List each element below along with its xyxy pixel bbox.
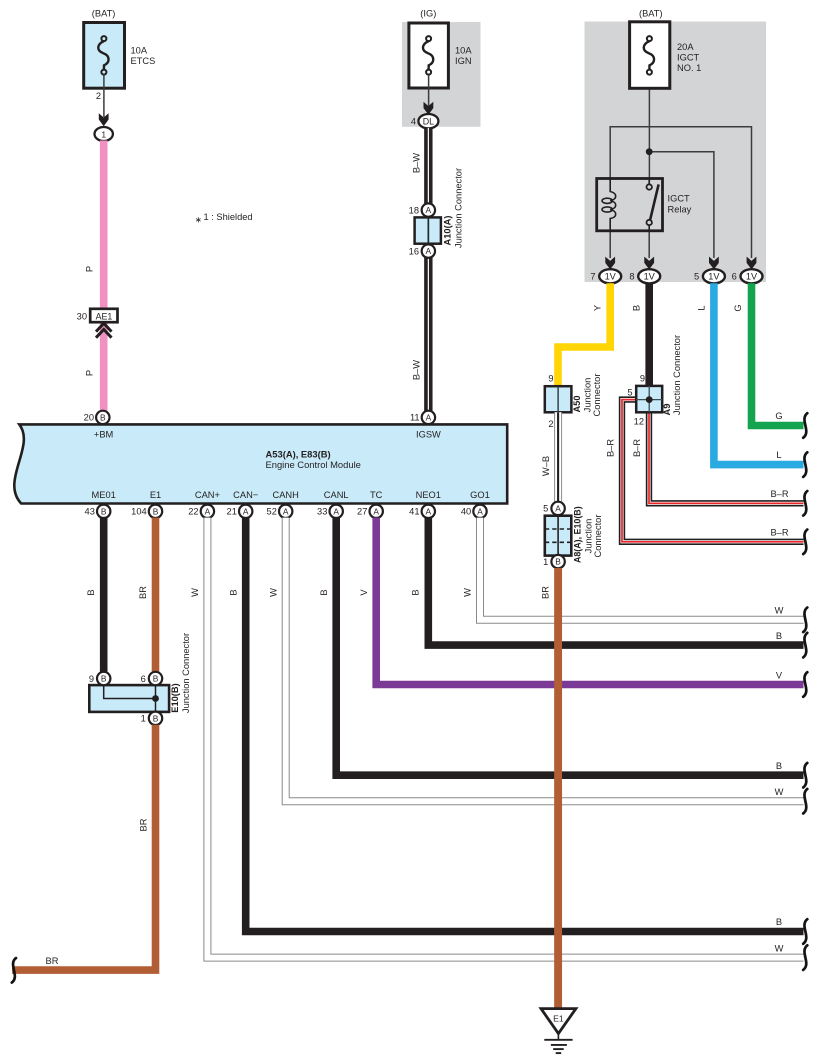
pin circle 27 A (TC): [370, 505, 383, 518]
svg-text:L: L: [696, 305, 706, 310]
svg-text:12: 12: [634, 417, 644, 427]
svg-text:∗: ∗: [195, 214, 202, 224]
svg-text:27: 27: [357, 507, 367, 517]
svg-text:W: W: [462, 588, 472, 597]
wire: BR ground wire from A8 pin1 to E1 ground: [554, 568, 562, 1009]
svg-text:P: P: [85, 266, 95, 272]
pin circle 1 B (A8 bottom): [551, 555, 564, 568]
junction connector A9 box: [636, 386, 662, 412]
svg-text:5: 5: [543, 504, 548, 514]
svg-text:A: A: [426, 246, 432, 256]
svg-text:+BM: +BM: [94, 430, 113, 440]
connector oval 4 DL: [418, 114, 438, 128]
shield chevron below AE1: [96, 323, 112, 331]
svg-text:5: 5: [627, 388, 632, 398]
fuse F1: 10A ETCS: [84, 23, 125, 89]
pin circle 33 A (CANL): [330, 505, 343, 518]
svg-text:41: 41: [409, 507, 419, 517]
svg-text:IGN: IGN: [455, 56, 472, 66]
svg-text:2: 2: [548, 419, 553, 429]
svg-text:Engine Control Module: Engine Control Module: [266, 459, 361, 470]
svg-text:V: V: [359, 589, 369, 596]
svg-text:BR: BR: [541, 586, 551, 599]
wire: BR from E10 pin1 to left edge: [12, 725, 156, 970]
svg-text:18: 18: [409, 205, 419, 215]
svg-text:6: 6: [732, 272, 737, 282]
wire: L blue pin5: [714, 283, 804, 464]
svg-text:B: B: [555, 557, 561, 567]
svg-text:B–W: B–W: [412, 153, 422, 173]
svg-text:E10(B): E10(B): [170, 683, 180, 712]
wire: horizontal link coil-to-pin6: [610, 127, 751, 258]
break symbol right (B NEO1): [803, 633, 807, 658]
wire: Y yellow pin7 to A50: [558, 283, 610, 388]
svg-text:9: 9: [548, 374, 553, 384]
svg-text:Connector: Connector: [593, 515, 603, 558]
svg-text:Junction Connector: Junction Connector: [181, 633, 191, 713]
wire: P pink from connector 1 to ECM +BM: [100, 141, 108, 413]
svg-text:20A: 20A: [677, 42, 694, 52]
arrow into 1V pin 7: [605, 257, 615, 270]
wire: B-W from junction A10(A) to ECM IGSW: [424, 258, 432, 413]
gray block (IG fuse area): [402, 22, 481, 127]
svg-text:4: 4: [411, 117, 416, 127]
svg-text:BR: BR: [138, 586, 148, 599]
svg-text:BR: BR: [46, 956, 59, 966]
svg-text:A: A: [333, 506, 339, 516]
break symbol right (B CANL): [803, 763, 807, 788]
pin circle 11 A (IGSW): [422, 411, 435, 424]
connector oval 1V pin 6: [741, 269, 763, 283]
svg-text:1: 1: [141, 714, 146, 724]
svg-text:B: B: [319, 589, 329, 595]
pin circle 104 B (E1): [149, 505, 162, 518]
svg-text:CAN−: CAN−: [233, 490, 258, 500]
svg-text:CANH: CANH: [273, 490, 299, 500]
pin circle 22 A (CAN+): [201, 505, 214, 518]
pin circle 6 B (E10): [149, 672, 162, 685]
pin circle 21 A (CAN-): [239, 505, 252, 518]
wire: B NEO1: [428, 518, 803, 646]
wire: W GO1: [480, 518, 804, 620]
pin circle 16 A (A10 bottom): [422, 244, 435, 257]
svg-text:A: A: [283, 506, 289, 516]
svg-text:30: 30: [77, 311, 87, 321]
wire: relay switch output to pin 8: [648, 231, 650, 258]
wire: relay coil output to pin 7: [609, 231, 611, 258]
svg-text:52: 52: [267, 507, 277, 517]
svg-text:B: B: [153, 506, 159, 516]
wire: branch dot-to-pin5: [649, 152, 714, 258]
break symbol right (G): [803, 413, 807, 438]
svg-text:B: B: [86, 589, 96, 595]
wire: IGCT fuse output vertical: [648, 75, 650, 182]
svg-text:20: 20: [84, 413, 94, 423]
svg-text:22: 22: [188, 507, 198, 517]
break symbol right (B-R no.2): [803, 491, 807, 516]
svg-text:CANL: CANL: [324, 490, 349, 500]
connector oval 1 (ETCS): [95, 127, 113, 141]
svg-text:10A: 10A: [455, 46, 472, 56]
wire: B CAN-: [246, 518, 804, 932]
svg-text:2: 2: [96, 91, 101, 101]
svg-text:E1: E1: [553, 1014, 564, 1024]
pin circle 43 B (ME01): [97, 505, 110, 518]
svg-text:CAN+: CAN+: [195, 490, 220, 500]
svg-text:G: G: [733, 304, 743, 311]
svg-text:Connector: Connector: [592, 374, 602, 417]
svg-text:A: A: [477, 506, 483, 516]
svg-text:B: B: [153, 674, 159, 684]
svg-text:A53(A), E83(B): A53(A), E83(B): [266, 448, 331, 459]
svg-text:Junction: Junction: [584, 519, 594, 554]
svg-text:B: B: [632, 305, 642, 311]
svg-text:(IG): (IG): [420, 9, 436, 19]
svg-text:DL: DL: [423, 117, 434, 127]
junction connector E10(B) box: [89, 685, 169, 712]
svg-text:1V: 1V: [644, 272, 656, 282]
svg-text:E1: E1: [150, 490, 161, 500]
svg-text:IGSW: IGSW: [416, 430, 441, 440]
wire: W CAN+: [207, 518, 803, 958]
svg-text:B: B: [776, 631, 782, 641]
node: dot inside A9: [646, 396, 653, 403]
svg-text:1V: 1V: [605, 272, 617, 282]
svg-text:40: 40: [461, 507, 471, 517]
svg-text:A: A: [426, 506, 432, 516]
svg-text:1 : Shielded: 1 : Shielded: [204, 212, 253, 222]
svg-text:A: A: [426, 412, 432, 422]
svg-text:A: A: [205, 506, 211, 516]
svg-text:NO. 1: NO. 1: [677, 63, 701, 73]
splice AE1 box: [90, 309, 117, 322]
pin circle 52 A (CANH): [279, 505, 292, 518]
svg-text:16: 16: [409, 246, 419, 256]
svg-text:AE1: AE1: [96, 311, 113, 321]
connector oval 1V pin 7: [599, 269, 621, 283]
node: dot inside E10(B): [152, 695, 159, 702]
svg-text:G: G: [775, 411, 782, 421]
svg-text:43: 43: [85, 507, 95, 517]
pin circle 9 B (E10): [97, 672, 110, 685]
wire: B-R no.1 from A9 left to right edge: [622, 400, 804, 542]
svg-text:7: 7: [590, 272, 595, 282]
arrow into connector DL (IGN): [424, 102, 434, 115]
svg-text:11: 11: [410, 413, 420, 423]
break symbol right (L): [803, 452, 807, 477]
svg-text:L: L: [776, 450, 781, 460]
wire: V TC: [376, 518, 803, 685]
junction connector A50 box: [545, 386, 572, 412]
svg-text:B: B: [101, 674, 107, 684]
svg-text:1: 1: [101, 129, 106, 139]
svg-text:B–R: B–R: [770, 489, 788, 499]
connector oval 1V pin 8: [638, 269, 660, 283]
wire: B-R no.2 from A9 bottom to right edge: [649, 411, 804, 503]
svg-text:W: W: [268, 588, 278, 597]
relay coil: [610, 179, 615, 231]
svg-text:5: 5: [694, 272, 699, 282]
svg-text:(BAT): (BAT): [92, 9, 116, 19]
junction connector A8(A) E10(B) box: [545, 516, 572, 556]
svg-text:GO1: GO1: [470, 490, 490, 500]
svg-text:A: A: [373, 506, 379, 516]
svg-text:10A: 10A: [131, 46, 148, 56]
svg-text:B–W: B–W: [412, 360, 422, 380]
break symbol right (V TC): [803, 672, 807, 697]
pin circle 40 A (GO1): [473, 505, 486, 518]
svg-text:IGCT: IGCT: [677, 53, 700, 63]
connector oval 1V pin 5: [703, 269, 725, 283]
arrow into 1V pin 5: [709, 257, 719, 270]
svg-text:A9: A9: [662, 404, 672, 416]
svg-text:ETCS: ETCS: [131, 56, 156, 66]
arrow into 1V pin 6: [747, 257, 757, 270]
svg-text:104: 104: [131, 507, 147, 517]
svg-text:Y: Y: [593, 305, 603, 311]
svg-text:33: 33: [317, 507, 327, 517]
node: junction dot under IGCT fuse: [646, 148, 653, 155]
svg-text:W–B: W–B: [541, 456, 551, 476]
break symbol left (BR): [12, 958, 16, 983]
wire: fuse IGN to arrow: [428, 75, 430, 106]
junction connector A10(A) box: [415, 217, 441, 243]
svg-text:A: A: [555, 503, 561, 513]
wire: fuse ETCS to arrow: [103, 75, 105, 117]
wire: BR from E1 down: [152, 518, 160, 672]
svg-text:9: 9: [640, 374, 645, 384]
break symbol right (W GO1): [803, 608, 807, 633]
svg-text:NEO1: NEO1: [416, 490, 441, 500]
pin circle 20 B (+BM): [96, 411, 109, 424]
pin circle 18 A (A10 top): [422, 203, 435, 216]
svg-text:(BAT): (BAT): [639, 9, 663, 19]
pin circle 5 A (A8 top): [551, 502, 564, 515]
relay switch: [648, 179, 650, 185]
svg-text:Junction: Junction: [583, 378, 593, 413]
wire: B-W from DL to junction A10(A): [424, 128, 432, 204]
svg-text:B: B: [101, 506, 107, 516]
wire: W-B from A50 to A8: [554, 412, 562, 502]
svg-text:A10(A): A10(A): [443, 216, 453, 246]
svg-text:TC: TC: [370, 490, 383, 500]
svg-text:V: V: [776, 670, 783, 680]
svg-text:A: A: [426, 205, 432, 215]
wire: B from ME01 down: [100, 518, 108, 672]
svg-text:1: 1: [543, 557, 548, 567]
svg-text:P: P: [85, 370, 95, 376]
svg-text:A8(A), E10(B): A8(A), E10(B): [573, 506, 583, 563]
relay K1 box: IGCT Relay: [597, 179, 663, 231]
svg-text:BR: BR: [139, 818, 149, 831]
svg-text:B–R: B–R: [632, 439, 642, 457]
svg-text:B–R: B–R: [770, 528, 788, 538]
svg-text:ME01: ME01: [92, 490, 116, 500]
ECM box A53(A) E83(B): [14, 424, 507, 503]
arrow into connector 1 (ETCS): [99, 113, 109, 126]
svg-text:1V: 1V: [708, 272, 720, 282]
break symbol right (W CAN+): [803, 945, 807, 970]
svg-text:B: B: [100, 412, 106, 422]
wire: W CANH: [286, 518, 804, 802]
ground symbol E1: [541, 1009, 576, 1034]
wire: B black pin8 to A9: [645, 283, 653, 388]
svg-text:B: B: [776, 917, 782, 927]
pin circle 41 A (NEO1): [422, 505, 435, 518]
svg-text:21: 21: [227, 507, 237, 517]
svg-text:B: B: [411, 589, 421, 595]
svg-text:A: A: [243, 506, 249, 516]
svg-text:B: B: [229, 589, 239, 595]
svg-text:Junction Connector: Junction Connector: [672, 335, 682, 415]
svg-text:B: B: [153, 713, 159, 723]
svg-text:1V: 1V: [746, 272, 758, 282]
wire: G green pin6: [752, 283, 804, 425]
svg-text:W: W: [190, 588, 200, 597]
svg-text:IGCT: IGCT: [668, 194, 691, 204]
fuse F3: 20A IGCT NO. 1: [630, 22, 670, 89]
svg-text:Junction Connector: Junction Connector: [454, 168, 464, 248]
svg-text:9: 9: [89, 674, 94, 684]
fuse F2: 10A IGN: [409, 23, 449, 88]
svg-text:B: B: [776, 761, 782, 771]
svg-text:Relay: Relay: [668, 205, 692, 215]
svg-text:8: 8: [629, 272, 634, 282]
pin circle 1 B (E10): [149, 712, 162, 725]
svg-text:6: 6: [141, 674, 146, 684]
svg-text:W: W: [775, 787, 784, 797]
gray block (BAT IGCT relay area): [585, 22, 767, 283]
svg-text:W: W: [775, 943, 784, 953]
svg-text:A50: A50: [572, 395, 582, 412]
svg-text:B–R: B–R: [606, 439, 616, 457]
wire: B CANL: [336, 518, 803, 776]
arrow into 1V pin 8: [644, 257, 654, 270]
break symbol right (B CAN-): [803, 919, 807, 944]
svg-text:W: W: [775, 606, 784, 616]
break symbol right (B-R no.1): [803, 530, 807, 555]
break symbol right (W CANH): [803, 789, 807, 814]
